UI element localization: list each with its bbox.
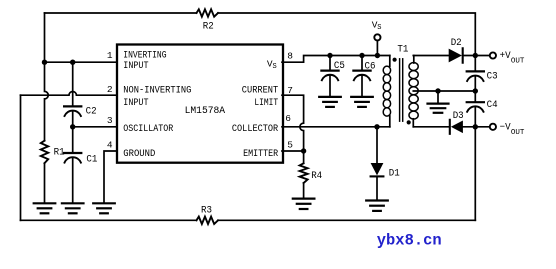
label C2 [86, 106, 97, 117]
svg-text:GROUND: GROUND [123, 149, 155, 160]
label T1 [397, 45, 408, 56]
label C6 [365, 62, 376, 73]
svg-text:C3: C3 [487, 71, 498, 82]
capacitor C4 stem [474, 91, 476, 102]
watermark ybx8.cn [377, 231, 442, 249]
svg-text:+V: +V [500, 51, 511, 62]
label INVERTING INPUT [123, 51, 166, 72]
svg-text:T1: T1 [397, 45, 408, 56]
junction pin1/top-rail column [42, 60, 47, 65]
ground C6 [351, 97, 373, 107]
wire pin 6 collector node [282, 126, 390, 128]
capacitor C6 [353, 71, 370, 81]
ground D1 [366, 201, 388, 211]
capacitor C2 [64, 106, 81, 116]
label R4 [311, 171, 322, 182]
ground C1 [62, 203, 84, 213]
terminal +Vout [490, 52, 496, 58]
capacitor C3 [467, 71, 484, 81]
junction C6/rail [359, 53, 364, 58]
label +Vout [500, 51, 525, 66]
svg-text:D2: D2 [451, 38, 462, 49]
wire pin 3 node (oscillator) [73, 126, 118, 128]
svg-text:NON-INVERTING: NON-INVERTING [123, 86, 191, 97]
wire secondary center tap [413, 90, 475, 92]
svg-text:S: S [377, 24, 381, 32]
pin 6 number [285, 113, 291, 124]
label NON-INVERTING INPUT [123, 86, 191, 109]
wire Vs terminal stem [376, 41, 378, 56]
terminal Vs [374, 34, 380, 40]
wire C6 to ground [361, 76, 363, 96]
resistor R4 [300, 163, 308, 183]
wire D1 stem [376, 127, 378, 163]
junction pin3/C-column [70, 124, 75, 129]
label D3 [453, 111, 464, 122]
label D2 [451, 38, 462, 49]
svg-text:COLLECTOR: COLLECTOR [232, 124, 278, 135]
label C4 [487, 100, 498, 111]
wire secondary top to D2 [413, 55, 449, 57]
svg-text:OUT: OUT [511, 57, 525, 65]
wire tap ground stem [437, 91, 439, 103]
svg-text:D3: D3 [453, 111, 464, 122]
label R3 [201, 205, 212, 216]
wire top rail left segment (pin1 feedback node to R2) [45, 12, 197, 14]
svg-text:5: 5 [287, 140, 293, 151]
pin 4 number [107, 140, 113, 151]
wire pin 4 to ground (ground pin) [104, 151, 118, 203]
resistor R1 [41, 141, 48, 164]
wire -Vout bus to bottom rail [474, 127, 476, 221]
junction C5/rail [327, 53, 332, 58]
wire left border down [20, 95, 22, 220]
svg-text:LM1578A: LM1578A [185, 106, 226, 117]
svg-text:INPUT: INPUT [123, 61, 148, 72]
svg-text:INPUT: INPUT [123, 98, 148, 109]
label C1 [86, 154, 97, 165]
label Vs terminal [372, 20, 382, 33]
op-amp U1 LM1578A IC body [117, 45, 283, 163]
label CURRENT LIMIT [242, 86, 278, 109]
pin 7 number [287, 85, 293, 96]
pin 8 number [287, 51, 293, 62]
wire C6 stem [361, 56, 363, 71]
wire C3 to tap node [474, 77, 476, 92]
diode D2 [449, 48, 463, 62]
svg-text:LIMIT: LIMIT [254, 98, 278, 109]
diode D1 [371, 163, 384, 176]
phase dot T1 secondary [407, 120, 411, 124]
capacitor C3 stem [474, 56, 476, 72]
svg-text:C6: C6 [365, 62, 376, 73]
diode D3 [450, 120, 463, 134]
svg-text:−V: −V [500, 123, 511, 134]
label C5 [334, 61, 345, 72]
svg-text:3: 3 [107, 115, 113, 126]
phase dot T1 primary [393, 58, 397, 62]
wire pin 1 node (inverting input) [45, 61, 119, 63]
wire bottom rail right segment [218, 219, 475, 221]
transformer T1 primary winding [383, 56, 390, 127]
label -Vout [500, 123, 525, 138]
svg-text:7: 7 [287, 85, 293, 96]
capacitor C4 [467, 102, 484, 112]
svg-text:D1: D1 [389, 168, 400, 179]
wire D3 to -Vout [463, 126, 490, 128]
wire R4 to ground [303, 183, 305, 198]
wire D1 to ground [376, 176, 378, 200]
svg-text:C1: C1 [86, 154, 97, 165]
svg-text:C5: C5 [334, 61, 345, 72]
wire D2 to +Vout [463, 55, 490, 57]
svg-text:R1: R1 [54, 147, 65, 158]
junction pin1/C2 column [70, 60, 75, 65]
svg-text:8: 8 [287, 51, 293, 62]
svg-text:R3: R3 [201, 205, 212, 216]
pin 2 number [107, 84, 113, 95]
transformer T1 secondary winding [409, 56, 418, 127]
junction D1/collector node [374, 124, 379, 129]
ground C5 [319, 97, 341, 107]
wire bottom rail left segment [21, 219, 197, 221]
label LM1578A [185, 106, 226, 117]
svg-text:S: S [273, 63, 277, 71]
junction tap/bus [473, 88, 478, 93]
svg-text:OUT: OUT [511, 129, 525, 137]
svg-text:1: 1 [107, 50, 113, 61]
transformer T1 core [400, 59, 403, 121]
junction pin5/pin7/R4 [301, 148, 306, 153]
pin 3 number [107, 115, 113, 126]
junction -Vout/bus [473, 124, 478, 129]
wire C2 to pin3 node [72, 112, 74, 153]
label C3 [487, 71, 498, 82]
wire secondary bottom to D3 [413, 126, 448, 128]
wire pin 8 to Vs rail [282, 56, 390, 63]
svg-text:C4: C4 [487, 100, 498, 111]
svg-text:2: 2 [107, 84, 113, 95]
pin 5 number [287, 140, 293, 151]
capacitor C5 [321, 71, 338, 81]
svg-text:C2: C2 [86, 106, 97, 117]
ground R1 [34, 203, 56, 213]
junction tap/ground [435, 88, 440, 93]
label R2 [203, 22, 214, 33]
wire pin 7 current-limit (hops over pin6 wire) [282, 95, 304, 151]
label R1 [54, 147, 65, 158]
wire pin 2 node (non-inverting input, hops over C2 column) [21, 91, 119, 95]
terminal -Vout [490, 124, 496, 130]
wire C5 stem [329, 56, 331, 71]
wire C5 to ground [329, 76, 331, 96]
svg-text:EMITTER: EMITTER [243, 149, 278, 160]
wire pin 5 emitter [282, 150, 304, 152]
wire C1 to ground [72, 158, 74, 203]
capacitor C1 [64, 153, 81, 163]
wire top rail right segment (R2 to +Vout bus) [218, 13, 475, 56]
ground pin4 [93, 203, 115, 213]
label D1 [389, 168, 400, 179]
wire R4 stem [303, 151, 305, 163]
wire left column to R1 (hops over pin2 wire) [45, 13, 49, 141]
label Vs pin8 [267, 58, 277, 71]
wire R1 to ground [44, 163, 46, 203]
svg-text:OSCILLATOR: OSCILLATOR [123, 124, 173, 135]
wire C2 column upper [72, 62, 74, 106]
label COLLECTOR [232, 124, 278, 135]
svg-text:ybx8.cn: ybx8.cn [377, 231, 442, 249]
svg-text:4: 4 [107, 140, 113, 151]
resistor R3 [197, 217, 219, 224]
label OSCILLATOR [123, 124, 173, 135]
ground R4 [293, 199, 315, 209]
ground center tap [428, 104, 449, 113]
wire C4 to -Vout node [474, 107, 476, 127]
resistor R2 [197, 9, 219, 16]
svg-text:CURRENT: CURRENT [242, 86, 278, 97]
pin 1 number [107, 50, 113, 61]
label EMITTER [243, 149, 278, 160]
junction +Vout/bus [473, 53, 478, 58]
label GROUND [123, 149, 155, 160]
svg-text:R4: R4 [311, 171, 322, 182]
svg-text:R2: R2 [203, 22, 214, 33]
svg-text:6: 6 [285, 113, 291, 124]
junction Vs terminal/rail [375, 53, 380, 58]
